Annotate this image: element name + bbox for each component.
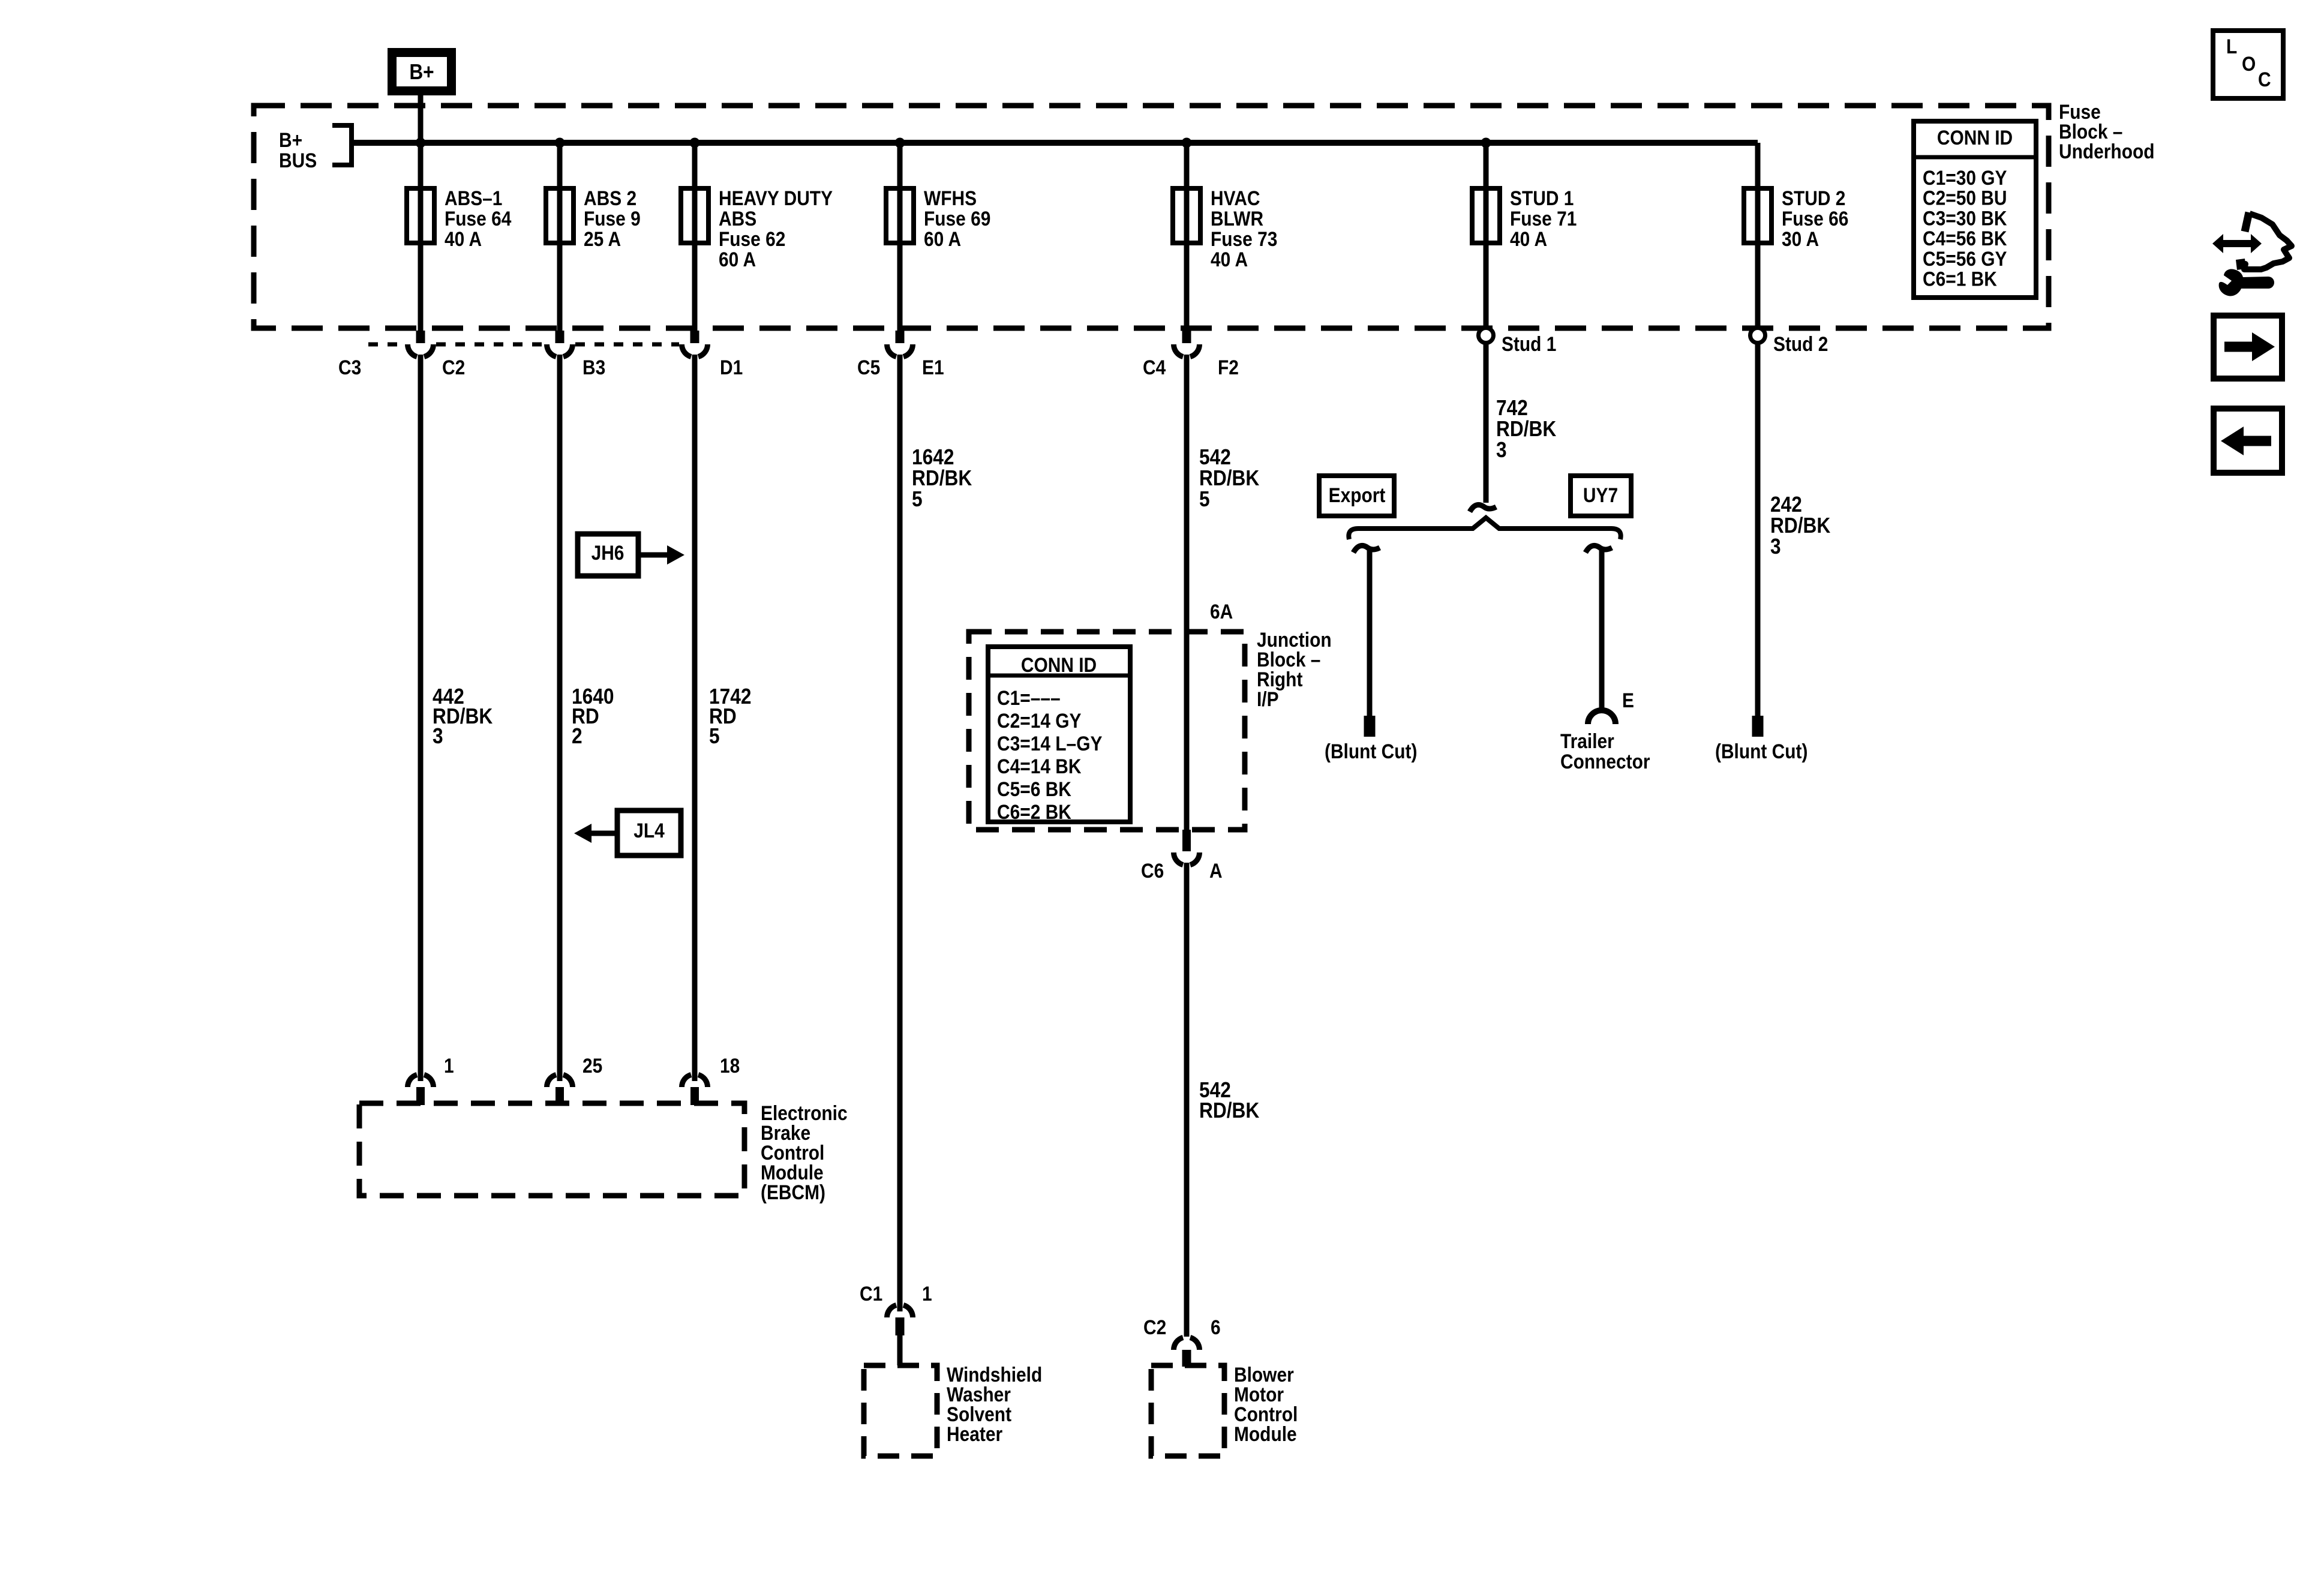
CONN ID table of fuse block underhood (1914, 121, 2036, 298)
CONN ID table of junction block (988, 647, 1130, 823)
wire label 542 RD/BK 5 (1199, 445, 1260, 511)
svg-text:B+: B+ (409, 60, 434, 84)
Junction Block - Right I/P dashed box (969, 632, 1245, 830)
svg-text:C2: C2 (442, 356, 465, 379)
svg-text:RD/BK: RD/BK (1199, 1098, 1260, 1122)
svg-text:E1: E1 (922, 356, 944, 379)
svg-text:(Blunt Cut): (Blunt Cut) (1325, 740, 1417, 763)
B+ battery terminal box (392, 53, 452, 91)
svg-text:ABS: ABS (719, 207, 756, 230)
svg-text:C2: C2 (1143, 1316, 1166, 1338)
wire label 1642 RD/BK 5 (912, 445, 972, 511)
svg-text:Fuse 62: Fuse 62 (719, 227, 785, 250)
svg-text:ABS 2: ABS 2 (584, 187, 636, 209)
svg-text:F2: F2 (1218, 356, 1239, 379)
svg-text:C5=56 GY: C5=56 GY (1923, 247, 2007, 270)
wire 542 RD/BK from HVAC BLWR fuse (inside fuse block) (1184, 143, 1190, 331)
wire UY7 branch to trailer connector (1586, 545, 1612, 711)
svg-text:5: 5 (912, 487, 923, 511)
wire 1640 RD from ABS 2 fuse (inside fuse block) (557, 143, 563, 331)
svg-text:6: 6 (1211, 1316, 1221, 1338)
wire label 442 RD/BK 3 (433, 685, 493, 748)
svg-text:40 A: 40 A (1510, 227, 1547, 250)
svg-text:C3=30 BK: C3=30 BK (1923, 207, 2007, 230)
wire stud 2 drop inside fuse block (1755, 143, 1761, 327)
svg-text:Module: Module (1234, 1422, 1297, 1445)
wire label 1640 RD 2 (572, 685, 614, 748)
wire 442 RD/BK run to EBCM (418, 355, 424, 1081)
blunt cut cap export branch (1364, 716, 1376, 737)
svg-text:L: L (2226, 35, 2237, 58)
windshield washer solvent heater label (947, 1363, 1042, 1445)
junction block label (1257, 628, 1332, 710)
fuse WFHS Fuse 69 (886, 187, 990, 250)
svg-text:Connector: Connector (1560, 750, 1650, 773)
fuse HEAVY DUTY ABS Fuse 62 (681, 187, 833, 271)
svg-text:5: 5 (709, 724, 720, 748)
svg-text:1: 1 (922, 1282, 932, 1305)
svg-text:CONN ID: CONN ID (1021, 653, 1097, 676)
junction block terminal 6A label (1210, 600, 1233, 623)
svg-text:O: O (2242, 52, 2256, 75)
svg-text:60 A: 60 A (719, 248, 756, 271)
ring terminal E trailer connector (1588, 689, 1634, 724)
wire label 242 RD/BK 3 (1770, 493, 1831, 559)
svg-text:STUD 2: STUD 2 (1782, 187, 1845, 209)
option split brace under stud 1 wire (1349, 518, 1620, 539)
svg-text:C5=6 BK: C5=6 BK (997, 778, 1071, 800)
svg-text:(EBCM): (EBCM) (761, 1181, 825, 1203)
svg-text:Fuse 9: Fuse 9 (584, 207, 641, 230)
svg-text:ABS–1: ABS–1 (445, 187, 502, 209)
svg-text:Export: Export (1329, 484, 1386, 506)
fuse STUD 2 Fuse 66 (1744, 187, 1848, 250)
svg-text:40 A: 40 A (445, 227, 482, 250)
svg-text:JL4: JL4 (633, 819, 665, 842)
svg-text:Trailer: Trailer (1560, 730, 1614, 752)
svg-text:C6=2 BK: C6=2 BK (997, 800, 1071, 823)
fuse STUD 1 Fuse 71 (1472, 187, 1577, 250)
svg-text:WFHS: WFHS (924, 187, 977, 209)
connector C2 pin 6 of blower motor control module (1143, 1316, 1221, 1367)
svg-text:C6=1 BK: C6=1 BK (1923, 268, 1997, 290)
svg-text:C6: C6 (1141, 859, 1164, 882)
svg-text:C4=14 BK: C4=14 BK (997, 755, 1081, 778)
svg-text:Fuse 71: Fuse 71 (1510, 207, 1577, 230)
wire 742 RD/BK from stud 1 (1470, 343, 1496, 512)
B+ BUS label and bracket (279, 125, 352, 172)
svg-text:C1=30 GY: C1=30 GY (1923, 166, 2007, 189)
blunt cut cap stud 2 wire (1752, 716, 1764, 737)
bus junction node at STUD 1 tap (1481, 138, 1491, 148)
wire stud 1 drop inside fuse block (1484, 143, 1489, 327)
fuse ABS 2 Fuse 9 (546, 187, 641, 250)
svg-text:C: C (2258, 68, 2271, 91)
connector D1 at fuse block exit (pin and cup) (682, 331, 743, 379)
fuse ABS-1 Fuse 64 (407, 187, 512, 250)
svg-text:6A: 6A (1210, 600, 1233, 623)
svg-text:C5: C5 (857, 356, 880, 379)
svg-text:HEAVY DUTY: HEAVY DUTY (719, 187, 833, 209)
svg-text:Stud 1: Stud 1 (1502, 332, 1556, 355)
svg-text:Fuse 64: Fuse 64 (445, 207, 512, 230)
wire label 1742 RD 5 (709, 685, 751, 748)
svg-text:B+: B+ (279, 128, 302, 151)
svg-text:I/P: I/P (1257, 688, 1279, 710)
connector dotted gang line between C2 B3 D1 (368, 343, 679, 347)
bus junction node at WFHS tap (895, 138, 905, 148)
wire 1642 RD/BK from WFHS fuse (inside fuse block) (897, 143, 903, 331)
svg-text:30 A: 30 A (1782, 227, 1819, 250)
previous page left arrow box (2214, 409, 2282, 473)
connector pin 25 into EBCM (547, 1054, 603, 1105)
svg-text:2: 2 (572, 724, 582, 748)
wire 542 RD/BK from junction block to blower motor control module (1184, 863, 1190, 1337)
svg-text:5: 5 (1199, 487, 1210, 511)
wire 442 RD/BK from ABS-1 fuse (inside fuse block) (418, 143, 424, 331)
svg-text:C3: C3 (338, 356, 361, 379)
fuse HVAC BLWR Fuse 73 (1173, 187, 1277, 271)
svg-text:JH6: JH6 (591, 541, 624, 564)
svg-text:C1: C1 (860, 1282, 882, 1305)
Electronic Brake Control Module (EBCM) dashed box (359, 1103, 744, 1196)
wire B+ bus horizontal (352, 140, 1758, 146)
svg-text:C4=56 BK: C4=56 BK (1923, 227, 2007, 250)
wire 1642 RD/BK run to windshield washer solvent heater (897, 355, 903, 1311)
svg-text:Fuse 73: Fuse 73 (1211, 227, 1277, 250)
svg-text:Heater: Heater (947, 1422, 1002, 1445)
wire 1742 RD run to EBCM (692, 355, 698, 1081)
svg-text:25: 25 (582, 1054, 602, 1077)
JL4 option callout box with left arrow (574, 810, 681, 855)
JH6 option callout box with right arrow (578, 534, 684, 576)
EBCM label text (761, 1101, 848, 1203)
svg-text:UY7: UY7 (1583, 484, 1618, 506)
svg-text:Fuse 69: Fuse 69 (924, 207, 990, 230)
bus junction node at ABS 2 tap (555, 138, 565, 148)
svg-text:E: E (1622, 689, 1634, 712)
next page right arrow box (2214, 316, 2282, 379)
connector B3 at fuse block exit (pin and cup) (547, 331, 606, 379)
svg-text:40 A: 40 A (1211, 248, 1248, 271)
connector C2 at fuse block exit (pin and cup) (338, 331, 465, 379)
svg-text:C2=14 GY: C2=14 GY (997, 709, 1082, 732)
svg-text:1: 1 (444, 1054, 454, 1077)
svg-text:18: 18 (720, 1054, 740, 1077)
wire 542 RD/BK from fuse block to junction block (1184, 355, 1190, 830)
svg-text:B3: B3 (582, 356, 605, 379)
wire B+ feed from terminal to bus (418, 95, 424, 143)
svg-text:HVAC: HVAC (1211, 187, 1260, 209)
UY7 option tag box (1571, 476, 1631, 516)
svg-text:Underhood: Underhood (2059, 140, 2155, 163)
connector F2 at fuse block exit (pin and cup) (1143, 331, 1239, 379)
svg-text:C3=14 L–GY: C3=14 L–GY (997, 732, 1102, 755)
Export option tag box (1319, 476, 1394, 516)
svg-text:(Blunt Cut): (Blunt Cut) (1715, 740, 1807, 763)
blower motor control module label (1234, 1363, 1298, 1445)
LOC locator legend box (2213, 31, 2283, 98)
trailer connector label (1560, 730, 1650, 773)
wire export branch to blunt cut (1353, 545, 1380, 716)
wire label 742 RD/BK 3 (1496, 396, 1557, 462)
blunt cut label stud 2 (1715, 740, 1807, 763)
svg-text:3: 3 (1770, 535, 1781, 559)
bus junction node at HVAC BLWR tap (1182, 138, 1192, 148)
svg-text:Stud 2: Stud 2 (1773, 332, 1828, 355)
wire 1640 RD run to EBCM (557, 355, 563, 1081)
connector C6 pin A at junction block bottom (1141, 830, 1223, 882)
blunt cut label export branch (1325, 740, 1417, 763)
wire 242 RD/BK from stud 2 to blunt cut (1755, 343, 1761, 716)
svg-text:60 A: 60 A (924, 227, 961, 250)
svg-text:3: 3 (433, 724, 443, 748)
svg-text:A: A (1209, 859, 1223, 882)
fuse block - underhood dashed boundary (254, 106, 2049, 328)
svg-text:C2=50 BU: C2=50 BU (1923, 187, 2007, 209)
svg-text:Fuse 66: Fuse 66 (1782, 207, 1848, 230)
svg-text:3: 3 (1496, 438, 1507, 462)
connector C1 pin 1 of windshield washer solvent heater (860, 1282, 932, 1365)
svg-text:25 A: 25 A (584, 227, 621, 250)
svg-text:BUS: BUS (279, 149, 317, 172)
Blower Motor Control Module dashed box (1151, 1365, 1224, 1456)
svg-text:D1: D1 (720, 356, 743, 379)
stud 2 terminal ring (1750, 328, 1828, 356)
wire label 542 RD/BK lower (1199, 1078, 1260, 1122)
bus junction node at ABS-1 tap (416, 138, 426, 148)
svg-text:STUD 1: STUD 1 (1510, 187, 1574, 209)
svg-text:CONN ID: CONN ID (1937, 126, 2013, 149)
stud 1 terminal ring (1479, 328, 1557, 356)
connector pin 18 into EBCM (682, 1054, 740, 1105)
svg-text:BLWR: BLWR (1211, 207, 1263, 230)
svg-text:C1=–––: C1=––– (997, 686, 1061, 709)
fuse block label Fuse Block - Underhood (2059, 100, 2155, 163)
connector E1 at fuse block exit (pin and cup) (857, 331, 944, 379)
service information hand-wrench icon (2212, 212, 2292, 296)
bus junction node at HEAVY DUTY ABS tap (690, 138, 700, 148)
svg-text:C4: C4 (1143, 356, 1166, 379)
connector pin 1 into EBCM (408, 1054, 454, 1105)
Windshield Washer Solvent Heater dashed box (864, 1365, 937, 1456)
wire 1742 RD from HEAVY DUTY ABS fuse (inside fuse block) (692, 143, 698, 331)
